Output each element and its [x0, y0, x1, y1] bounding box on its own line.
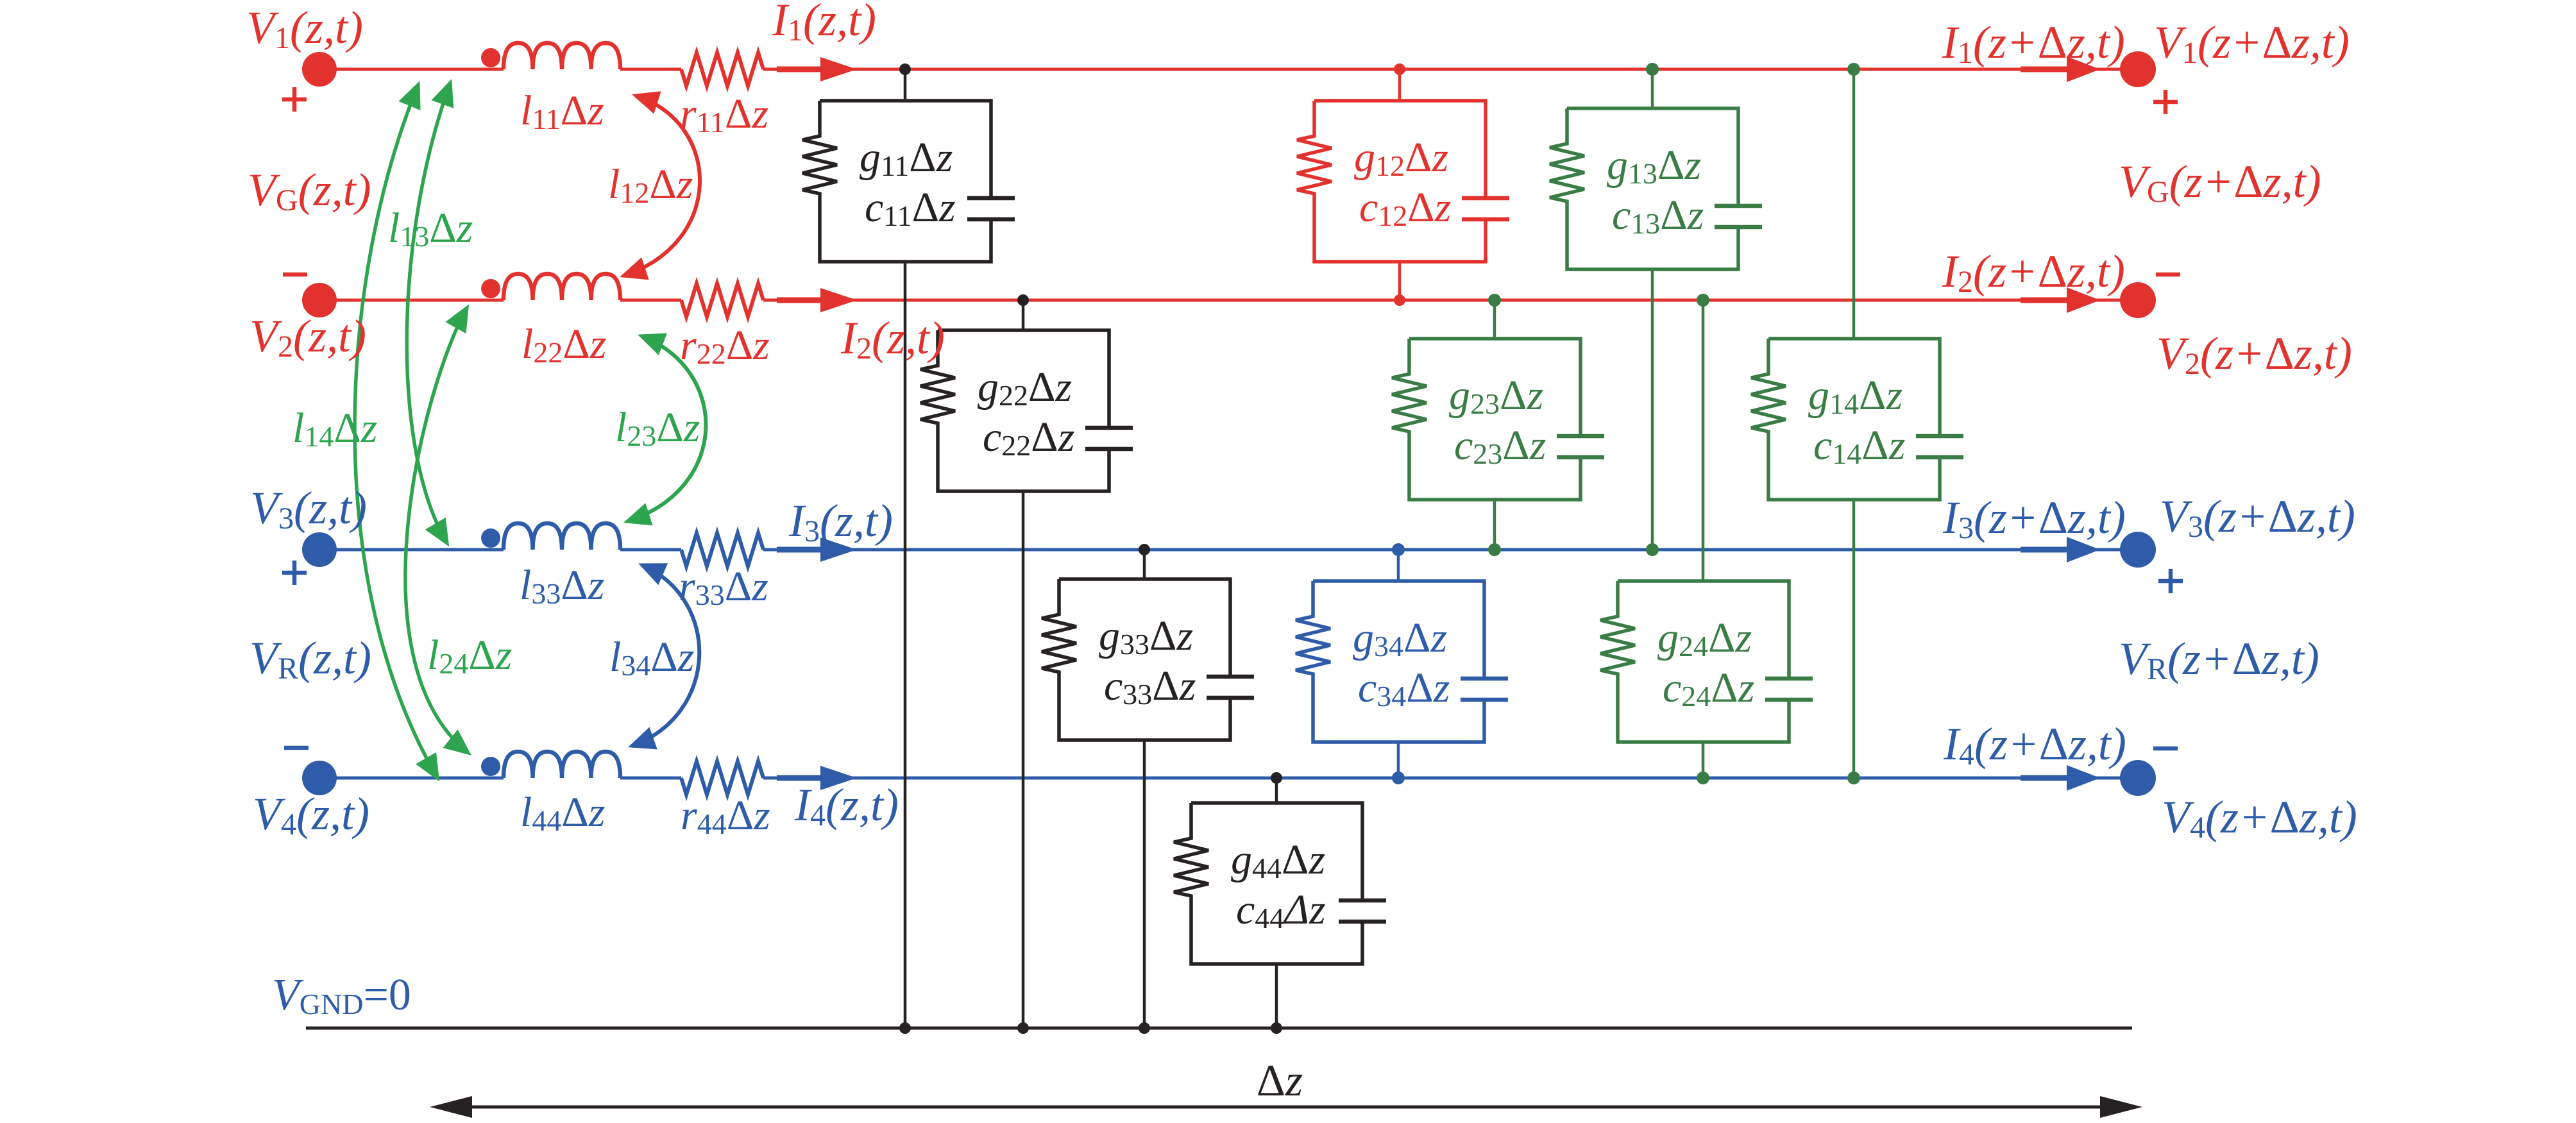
svg-text:c34Δz: c34Δz	[1358, 664, 1450, 713]
junction dot g23 junction line3	[1488, 543, 1501, 556]
phasing dot inductor l11	[481, 48, 500, 67]
resistor r33	[681, 533, 763, 566]
svg-text:V4(z+Δz,t): V4(z+Δz,t)	[2162, 791, 2357, 845]
wire conductor 4	[319, 777, 2138, 780]
wire g33 bottom stub to ground	[1143, 741, 1146, 1028]
svg-text:r44Δz: r44Δz	[681, 792, 770, 840]
svg-text:c22Δz: c22Δz	[983, 414, 1074, 462]
svg-text:g22Δz: g22Δz	[978, 364, 1072, 412]
resistor g13 (zigzag on left edge) and box outline	[1550, 108, 1738, 269]
wire g44 top stub	[1275, 778, 1278, 803]
mutual inductance arrow l14	[355, 85, 437, 778]
wire conductor 1	[319, 68, 2138, 71]
polarity minus V4 right	[2153, 747, 2178, 751]
junction dot g33 junction line3	[1139, 544, 1150, 555]
wire g13 bottom stub to line3	[1651, 270, 1654, 550]
current arrow I2(z+dz,t)	[2021, 298, 2071, 303]
capacitor c24 plates	[1765, 679, 1813, 700]
node V4(z+dz,t) terminal right	[2120, 760, 2156, 796]
resistor g24 (zigzag on left edge) and box outline	[1600, 581, 1789, 742]
node V4(z,t) terminal left	[302, 761, 337, 795]
svg-text:VR(z+Δz,t): VR(z+Δz,t)	[2119, 633, 2319, 686]
svg-text:r11Δz: r11Δz	[680, 90, 768, 139]
junction dot g23 junction line2	[1488, 294, 1501, 307]
svg-text:V1(z,t): V1(z,t)	[246, 2, 363, 55]
node V1(z,t) terminal left	[302, 52, 337, 87]
polarity plus V1 left	[282, 87, 307, 112]
svg-text:g24Δz: g24Δz	[1657, 614, 1752, 663]
phasing dot inductor l22	[481, 279, 500, 298]
wire g23 top stub	[1493, 300, 1496, 339]
wire g11 bottom stub to ground	[904, 262, 907, 1028]
svg-text:l13Δz: l13Δz	[388, 205, 473, 253]
inductor l33	[504, 523, 620, 550]
inductor l11	[504, 43, 620, 69]
svg-text:VG(z+Δz,t): VG(z+Δz,t)	[2119, 156, 2321, 209]
svg-text:I3(z,t): I3(z,t)	[788, 495, 893, 548]
svg-text:I2(z,t): I2(z,t)	[840, 312, 945, 366]
svg-text:c13Δz: c13Δz	[1612, 192, 1704, 240]
junction dot g34 junction line3	[1392, 543, 1405, 556]
mutual inductance arrow l24	[405, 308, 468, 753]
polarity plus V1 right	[2153, 90, 2178, 114]
wire conductor 3	[319, 548, 2138, 552]
capacitor c13 plates	[1715, 206, 1762, 227]
svg-text:c11Δz: c11Δz	[865, 184, 956, 232]
current arrow I4(z,t)	[777, 775, 829, 781]
capacitor c11 plates	[967, 198, 1015, 219]
svg-text:I1(z,t): I1(z,t)	[772, 0, 876, 47]
svg-text:l12Δz: l12Δz	[608, 161, 693, 209]
current arrow I3(z+dz,t)	[2021, 547, 2071, 553]
svg-text:V2(z,t): V2(z,t)	[250, 310, 366, 364]
svg-text:I3(z+Δz,t): I3(z+Δz,t)	[1942, 492, 2126, 545]
svg-text:l23Δz: l23Δz	[615, 404, 700, 452]
mutual inductance arrow l13	[407, 83, 450, 543]
resistor g34 (zigzag on left edge) and box outline	[1296, 581, 1484, 742]
svg-text:Δz: Δz	[1257, 1056, 1303, 1106]
node V2(z+dz,t) terminal right	[2120, 282, 2156, 318]
junction dot g11 junction line1	[899, 63, 911, 75]
junction dot g22 junction line2	[1017, 294, 1029, 306]
svg-text:g33Δz: g33Δz	[1099, 612, 1193, 661]
svg-text:r22Δz: r22Δz	[680, 322, 770, 370]
resistor g23 (zigzag on left edge) and box outline	[1392, 339, 1580, 500]
inductor l22	[504, 274, 620, 300]
current arrow I1(z+dz,t)	[2021, 67, 2071, 72]
capacitor c34 plates	[1461, 679, 1508, 700]
svg-text:VR(z,t): VR(z,t)	[250, 632, 371, 686]
svg-text:l33Δz: l33Δz	[520, 562, 604, 610]
current arrow I4(z+dz,t)	[2021, 775, 2071, 781]
svg-text:g44Δz: g44Δz	[1231, 836, 1325, 884]
junction dot g11 junction ground	[899, 1022, 911, 1034]
node V2(z,t) terminal left	[302, 283, 337, 317]
current arrow I3(z,t)	[777, 547, 829, 553]
wire g12 top stub	[1398, 69, 1402, 101]
svg-text:l34Δz: l34Δz	[609, 634, 694, 682]
junction dot g24 junction line4	[1697, 772, 1709, 784]
junction dot g14 junction line1	[1847, 63, 1860, 76]
junction dot g44 junction line4	[1271, 772, 1282, 784]
svg-text:I2(z+Δz,t): I2(z+Δz,t)	[1942, 246, 2125, 299]
svg-text:VG(z,t): VG(z,t)	[248, 164, 371, 217]
junction dot g34 junction line4	[1392, 772, 1405, 784]
svg-text:V1(z+Δz,t): V1(z+Δz,t)	[2154, 17, 2350, 70]
resistor g12 (zigzag on left edge) and box outline	[1297, 101, 1486, 262]
capacitor c14 plates	[1916, 436, 1963, 457]
svg-text:I4(z+Δz,t): I4(z+Δz,t)	[1943, 718, 2126, 772]
inductor l44	[504, 752, 620, 778]
node V1(z+dz,t) terminal right	[2120, 51, 2156, 87]
capacitor c23 plates	[1557, 436, 1604, 457]
resistor g11 (zigzag on left edge) and box outline	[802, 101, 991, 262]
wire g14 bottom stub to line4	[1852, 500, 1856, 778]
junction dot g33 junction ground	[1139, 1022, 1150, 1034]
dimension arrow Delta-z span	[468, 1106, 2104, 1109]
svg-text:I4(z,t): I4(z,t)	[794, 779, 899, 832]
svg-text:VGND=0: VGND=0	[272, 970, 411, 1020]
wire g12 bottom stub to line2	[1398, 262, 1402, 300]
wire g33 top stub	[1143, 550, 1146, 579]
phasing dot inductor l33	[481, 528, 500, 548]
wire g24 bottom stub to line4	[1702, 743, 1705, 778]
svg-text:l14Δz: l14Δz	[292, 405, 377, 453]
current arrow I2(z,t)	[777, 298, 829, 303]
wire g14 top stub from line1	[1852, 69, 1856, 339]
wire g22 bottom stub to ground	[1022, 492, 1025, 1028]
mutual inductance arrow l12	[623, 96, 700, 276]
svg-text:g12Δz: g12Δz	[1354, 134, 1448, 182]
capacitor c12 plates	[1462, 198, 1509, 219]
svg-text:V2(z+Δz,t): V2(z+Δz,t)	[2157, 328, 2352, 381]
svg-text:c14Δz: c14Δz	[1813, 422, 1905, 470]
capacitor c22 plates	[1085, 428, 1133, 449]
node V3(z,t) terminal left	[302, 532, 337, 567]
polarity minus V2 left	[283, 273, 307, 277]
capacitor c44 plates	[1339, 900, 1386, 922]
svg-text:I1(z+Δz,t): I1(z+Δz,t)	[1942, 17, 2125, 70]
svg-text:V4(z,t): V4(z,t)	[253, 788, 369, 841]
junction dot g44 junction ground	[1271, 1022, 1282, 1034]
wire g13 top stub	[1651, 69, 1654, 108]
wire g34 bottom stub to line4	[1397, 743, 1400, 778]
capacitor c33 plates	[1207, 677, 1254, 698]
resistor g14 (zigzag on left edge) and box outline	[1751, 339, 1940, 500]
resistor g44 (zigzag on left edge) and box outline	[1174, 803, 1362, 964]
svg-text:c12Δz: c12Δz	[1359, 184, 1451, 232]
current arrow I1(z,t)	[777, 67, 829, 72]
resistor r22	[681, 283, 763, 317]
svg-text:g13Δz: g13Δz	[1607, 142, 1701, 190]
svg-text:c24Δz: c24Δz	[1663, 664, 1754, 713]
svg-text:g14Δz: g14Δz	[1808, 372, 1902, 420]
polarity minus V4 left	[284, 746, 309, 750]
wire g44 bottom stub to ground	[1275, 965, 1278, 1028]
resistor r44	[681, 761, 763, 795]
junction dot g24 junction line2	[1697, 294, 1709, 307]
svg-text:l11Δz: l11Δz	[520, 87, 604, 135]
svg-text:g34Δz: g34Δz	[1353, 614, 1447, 663]
svg-text:l24Δz: l24Δz	[427, 632, 512, 680]
svg-text:l44Δz: l44Δz	[520, 789, 605, 837]
svg-text:c44Δz: c44Δz	[1236, 886, 1326, 934]
svg-text:c33Δz: c33Δz	[1104, 663, 1196, 711]
junction dot g22 junction ground	[1017, 1022, 1029, 1034]
polarity plus V3 left	[282, 561, 307, 585]
svg-text:g11Δz: g11Δz	[860, 134, 953, 182]
svg-text:g23Δz: g23Δz	[1449, 372, 1543, 420]
phasing dot inductor l44	[481, 757, 500, 776]
junction dot g12 junction line2	[1394, 294, 1405, 306]
mutual inductance arrow l23	[627, 336, 706, 521]
resistor g33 (zigzag on left edge) and box outline	[1042, 579, 1230, 740]
junction dot g14 junction line4	[1847, 772, 1860, 784]
mutual inductance arrow l34	[632, 565, 699, 746]
svg-text:r33Δz: r33Δz	[679, 563, 768, 611]
wire g11 top stub	[904, 69, 907, 101]
resistor r11	[681, 53, 763, 86]
wire g22 top stub	[1022, 300, 1025, 330]
wire g23 bottom stub to line3	[1493, 500, 1496, 550]
junction dot g12 junction line1	[1394, 63, 1405, 75]
ground conductor (reference, V_GND=0)	[306, 1027, 2132, 1030]
node V3(z+dz,t) terminal right	[2120, 532, 2156, 568]
svg-text:c23Δz: c23Δz	[1454, 422, 1546, 470]
polarity plus V3 right	[2158, 569, 2183, 593]
polarity minus V2 right	[2156, 273, 2180, 277]
resistor g22 (zigzag on left edge) and box outline	[920, 330, 1109, 491]
wire conductor 2	[319, 299, 2138, 302]
wire g34 top stub	[1397, 550, 1400, 581]
svg-text:V3(z,t): V3(z,t)	[250, 482, 367, 536]
junction dot g13 junction line3	[1646, 543, 1659, 556]
svg-text:l22Δz: l22Δz	[521, 321, 606, 369]
svg-text:V3(z+Δz,t): V3(z+Δz,t)	[2160, 491, 2355, 544]
wire g24 top stub from line2	[1702, 300, 1705, 581]
junction dot g13 junction line1	[1646, 63, 1659, 76]
